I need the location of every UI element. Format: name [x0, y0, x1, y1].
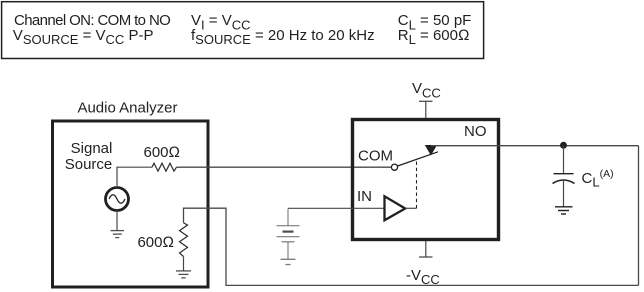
svg-text:NO: NO	[464, 123, 487, 140]
switch NO contact arrow	[425, 145, 437, 156]
wire right edge down to bottom loop	[638, 146, 640, 286]
battery (IN bias)	[277, 226, 300, 242]
wire battery to ground	[287, 242, 289, 259]
wire junction to CL	[563, 146, 565, 174]
svg-text:Audio Analyzer: Audio Analyzer	[77, 100, 177, 117]
svg-text:RL = 600Ω: RL = 600Ω	[398, 27, 470, 47]
wire source bottom to ground	[116, 211, 118, 231]
conditions box	[2, 2, 484, 59]
svg-text:-VCC: -VCC	[406, 267, 440, 287]
wire load loop: resistor top to outside corner	[184, 208, 639, 285]
svg-text:Signal: Signal	[71, 140, 113, 157]
svg-text:COM: COM	[358, 147, 393, 164]
svg-text:VI = VCC: VI = VCC	[191, 12, 251, 32]
ground (CL)	[555, 207, 573, 214]
wire battery to IN	[287, 209, 289, 226]
buffer driver A1	[385, 196, 406, 220]
switch blade	[398, 152, 438, 166]
audio analyzer box	[53, 121, 209, 287]
ground (battery)	[281, 259, 296, 264]
switch pole circle (COM contact)	[391, 164, 397, 170]
wire VCC to box	[425, 101, 427, 118]
svg-text:fSOURCE = 20 Hz to 20 kHz: fSOURCE = 20 Hz to 20 kHz	[191, 27, 375, 47]
resistor 600ohm (series, horizontal)	[152, 163, 177, 171]
wire NO to junction and right edge	[431, 145, 639, 147]
ground (signal source)	[111, 231, 125, 238]
wire box to -VCC	[425, 241, 427, 257]
VCC terminal	[419, 100, 433, 102]
ground (load resistor)	[176, 271, 191, 278]
capacitor CL	[554, 173, 574, 175]
wire buffer output	[406, 207, 417, 209]
wire resistor to COM	[177, 166, 392, 168]
svg-text:CL(A): CL(A)	[582, 168, 614, 190]
wire RL bottom to ground	[183, 257, 185, 271]
svg-text:600Ω: 600Ω	[144, 144, 181, 161]
svg-text:IN: IN	[357, 188, 372, 205]
svg-text:600Ω: 600Ω	[137, 234, 174, 251]
junction node dot	[560, 142, 567, 149]
dashed control link	[416, 161, 418, 208]
-VCC terminal	[419, 256, 433, 258]
source V1 sine generator	[106, 188, 129, 211]
svg-text:VSOURCE = VCC P-P: VSOURCE = VCC P-P	[13, 27, 154, 47]
resistor 600ohm RL (vertical)	[180, 223, 188, 257]
svg-text:Source: Source	[65, 156, 113, 173]
device under test box U1	[353, 120, 499, 240]
svg-text:VCC: VCC	[412, 80, 441, 100]
wire source top to resistor	[117, 167, 152, 187]
wire IN to buffer	[288, 207, 385, 209]
wire CL to ground	[563, 181, 565, 206]
